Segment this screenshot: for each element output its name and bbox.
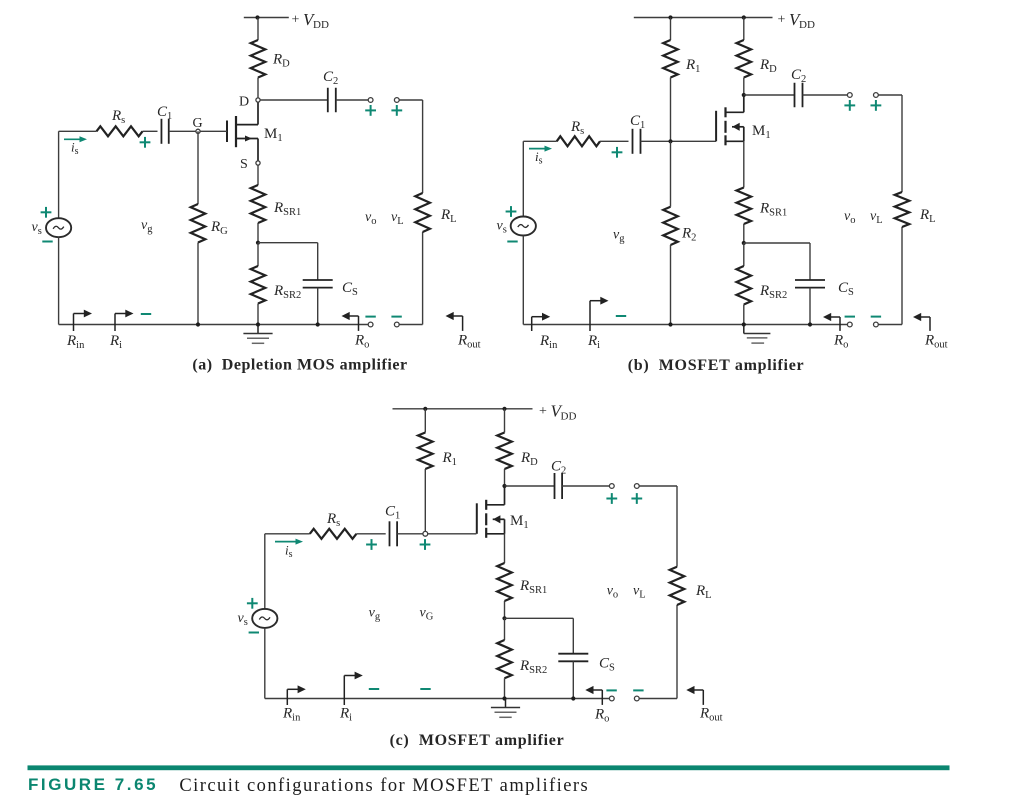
svg-text:Rout: Rout bbox=[699, 706, 723, 724]
svg-text:vo: vo bbox=[365, 210, 376, 227]
svg-text:R1: R1 bbox=[685, 57, 700, 75]
svg-text:M1: M1 bbox=[264, 126, 283, 144]
svg-text:(a) Depletion MOS amplifier: (a) Depletion MOS amplifier bbox=[192, 357, 407, 374]
svg-text:RSR2: RSR2 bbox=[759, 283, 787, 301]
svg-text:Rs: Rs bbox=[570, 119, 584, 137]
svg-text:Rout: Rout bbox=[924, 333, 948, 351]
svg-text:RSR1: RSR1 bbox=[759, 200, 787, 218]
svg-text:Rs: Rs bbox=[326, 511, 340, 529]
svg-text:C1: C1 bbox=[385, 504, 400, 522]
svg-text:M1: M1 bbox=[752, 123, 771, 141]
svg-text:is: is bbox=[71, 140, 79, 158]
svg-text:D: D bbox=[239, 95, 249, 110]
svg-text:Ri: Ri bbox=[587, 333, 600, 351]
svg-text:Rin: Rin bbox=[66, 333, 85, 351]
svg-text:CS: CS bbox=[838, 280, 854, 298]
svg-text:DD: DD bbox=[561, 411, 577, 423]
svg-text:C1: C1 bbox=[630, 113, 645, 131]
svg-text:DD: DD bbox=[313, 19, 329, 31]
svg-text:R1: R1 bbox=[442, 450, 457, 468]
svg-text:M1: M1 bbox=[510, 513, 529, 531]
svg-text:RG: RG bbox=[210, 219, 228, 237]
svg-text:C2: C2 bbox=[323, 69, 338, 87]
svg-text:vg: vg bbox=[613, 228, 625, 245]
svg-text:vL: vL bbox=[633, 584, 646, 601]
svg-text:RD: RD bbox=[272, 52, 290, 70]
svg-text:Ro: Ro bbox=[833, 333, 848, 351]
svg-text:(b) MOSFET amplifier: (b) MOSFET amplifier bbox=[628, 357, 805, 374]
svg-text:RD: RD bbox=[520, 450, 538, 468]
svg-text:Ro: Ro bbox=[594, 707, 609, 725]
svg-text:S: S bbox=[240, 157, 248, 172]
svg-text:RL: RL bbox=[440, 207, 457, 225]
svg-text:vL: vL bbox=[391, 210, 404, 227]
svg-text:vg: vg bbox=[369, 606, 381, 623]
svg-text:is: is bbox=[535, 149, 543, 167]
svg-text:vs: vs bbox=[497, 219, 507, 236]
svg-text:RSR2: RSR2 bbox=[273, 283, 301, 301]
svg-text:Rin: Rin bbox=[282, 706, 301, 724]
svg-text:RL: RL bbox=[919, 207, 936, 225]
svg-text:Rs: Rs bbox=[111, 108, 125, 126]
svg-text:RSR1: RSR1 bbox=[273, 200, 301, 218]
svg-text:CS: CS bbox=[599, 656, 615, 674]
svg-text:vL: vL bbox=[870, 209, 883, 226]
svg-text:R2: R2 bbox=[681, 226, 696, 244]
svg-text:C1: C1 bbox=[157, 104, 172, 122]
svg-text:+: + bbox=[539, 404, 547, 419]
svg-text:G: G bbox=[193, 116, 203, 131]
svg-text:Ri: Ri bbox=[339, 706, 352, 724]
svg-text:RL: RL bbox=[695, 583, 712, 601]
svg-text:DD: DD bbox=[799, 19, 815, 31]
svg-text:C2: C2 bbox=[791, 67, 806, 85]
svg-text:vs: vs bbox=[32, 220, 42, 237]
svg-text:vg: vg bbox=[141, 218, 153, 235]
svg-text:Rout: Rout bbox=[457, 333, 481, 351]
svg-text:Rin: Rin bbox=[539, 333, 558, 351]
svg-text:+: + bbox=[292, 13, 300, 28]
svg-text:is: is bbox=[285, 543, 293, 561]
svg-text:+: + bbox=[778, 13, 786, 28]
svg-text:FIGURE 7.65: FIGURE 7.65 bbox=[28, 775, 158, 794]
svg-text:CS: CS bbox=[342, 280, 358, 298]
svg-text:vs: vs bbox=[238, 611, 248, 628]
svg-text:vo: vo bbox=[844, 209, 855, 226]
svg-text:Ri: Ri bbox=[109, 333, 122, 351]
svg-text:vo: vo bbox=[607, 584, 618, 601]
svg-text:Circuit configurations for MOS: Circuit configurations for MOSFET amplif… bbox=[179, 776, 589, 796]
svg-text:RSR1: RSR1 bbox=[519, 578, 547, 596]
svg-text:RD: RD bbox=[759, 57, 777, 75]
svg-text:Ro: Ro bbox=[354, 333, 369, 351]
svg-text:vG: vG bbox=[420, 606, 434, 623]
svg-text:(c) MOSFET amplifier: (c) MOSFET amplifier bbox=[390, 732, 565, 749]
svg-text:C2: C2 bbox=[551, 459, 566, 477]
svg-text:RSR2: RSR2 bbox=[519, 658, 547, 676]
